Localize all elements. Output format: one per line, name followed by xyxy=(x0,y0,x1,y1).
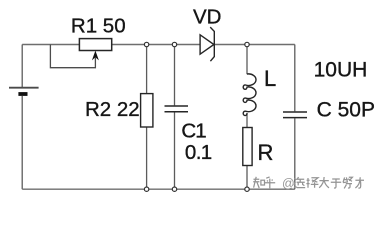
wire potentiometer tap xyxy=(50,45,95,68)
node bottom R2 xyxy=(144,187,148,191)
wire L R branch lower xyxy=(246,166,248,190)
wire left rail upper xyxy=(21,45,23,88)
watermark char yu xyxy=(331,179,341,188)
watermark char ze xyxy=(306,178,318,188)
svg-text:C1: C1 xyxy=(181,119,206,142)
capacitor C bottom plate xyxy=(283,117,307,119)
watermark char nu xyxy=(343,177,352,188)
resistor R1 potentiometer body xyxy=(79,39,111,51)
svg-text:C 50P: C 50P xyxy=(317,99,375,122)
wire R2 branch upper xyxy=(146,45,148,94)
watermark char xuan xyxy=(294,177,305,188)
node bottom C1 xyxy=(172,187,176,191)
watermark char li xyxy=(355,177,364,188)
resistor R1 wiper arrowhead xyxy=(92,51,99,61)
node top C1 xyxy=(172,42,176,46)
battery long plate xyxy=(9,87,39,89)
wire L R branch upper xyxy=(246,45,248,75)
svg-text:L: L xyxy=(264,66,276,91)
watermark char da xyxy=(319,177,329,188)
wire C1 branch upper xyxy=(174,45,176,106)
watermark char zhi xyxy=(253,177,264,188)
resistor R2 body xyxy=(141,94,153,127)
diode VD tunnel diode triangle xyxy=(200,35,214,54)
wire R2 branch lower xyxy=(146,127,148,189)
wire L R branch middle xyxy=(246,113,248,128)
node bottom L xyxy=(245,187,249,191)
wire top rail xyxy=(22,44,295,46)
svg-text:R1 50: R1 50 xyxy=(71,14,126,37)
watermark char hu xyxy=(265,177,276,188)
node top L xyxy=(245,42,249,46)
diode VD cathode bar with hooks xyxy=(210,27,214,61)
capacitor C1 top plate xyxy=(165,105,189,107)
wire C1 branch lower xyxy=(174,112,176,189)
inductor L coil xyxy=(243,74,256,116)
node top R2 xyxy=(144,42,148,46)
svg-text:VD: VD xyxy=(193,5,221,28)
wire bottom rail xyxy=(22,188,295,190)
wire left rail lower xyxy=(21,96,23,189)
wire right rail upper xyxy=(294,45,296,112)
capacitor C1 bottom plate xyxy=(165,111,189,113)
svg-text:R2 22: R2 22 xyxy=(85,98,140,121)
resistor R body xyxy=(243,128,252,166)
svg-text:R: R xyxy=(258,140,274,165)
battery short thick plate xyxy=(18,92,27,96)
svg-text:@: @ xyxy=(282,177,295,191)
svg-text:0.1: 0.1 xyxy=(185,141,212,164)
capacitor C top plate xyxy=(283,111,307,113)
svg-text:10UH: 10UH xyxy=(314,58,368,81)
wire right rail lower xyxy=(294,118,296,189)
watermark zhihu xyxy=(253,177,364,191)
